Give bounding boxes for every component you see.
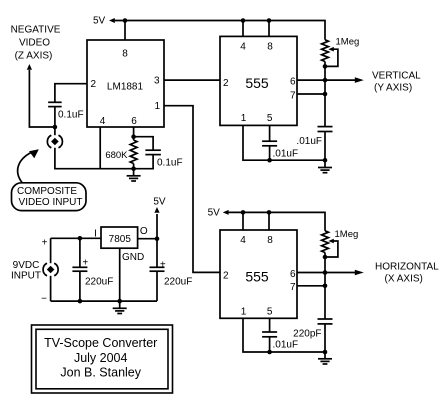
- wire: U1 pin 6 down: [133, 127, 135, 140]
- svg-text:5V: 5V: [93, 15, 106, 26]
- wire: 9V+ rail to U4 input: [51, 237, 101, 239]
- value 0.1uF (C2): [157, 158, 183, 169]
- wire: U3 pin 7 right: [297, 285, 325, 287]
- junction above U3 pin 8: [267, 210, 272, 215]
- svg-text:5V: 5V: [208, 207, 221, 218]
- svg-text:7805: 7805: [109, 234, 132, 245]
- svg-text:680K: 680K: [105, 150, 128, 161]
- svg-text:1Meg: 1Meg: [335, 229, 359, 240]
- ground (U3 section): [318, 352, 332, 364]
- svg-text:VERTICAL: VERTICAL: [372, 71, 421, 82]
- node VR1 wiper junction: [323, 64, 328, 69]
- pin 1 label U1: [154, 101, 160, 112]
- wire: bottom - rail: [51, 300, 157, 302]
- pin 2 label U3: [223, 270, 229, 281]
- node C7 bottom junction: [78, 299, 83, 304]
- wire: U3 pin 8 to rail: [268, 212, 270, 230]
- wire: J2 center to + rail: [50, 238, 52, 263]
- title text TV-Scope Converter: [44, 336, 157, 350]
- svg-text:July 2004: July 2004: [74, 351, 128, 365]
- svg-text:O: O: [140, 226, 148, 237]
- node HORIZONTAL (X AXIS) label: [375, 261, 439, 284]
- pin 7 label U3: [290, 282, 296, 293]
- svg-text:(Z AXIS): (Z AXIS): [15, 51, 53, 62]
- svg-text:LM1881: LM1881: [107, 82, 144, 93]
- junction above U3 pin 4: [241, 210, 246, 215]
- node U4 gnd junction: [117, 299, 122, 304]
- wire: U1 pin 1 to U3 pin 2: [164, 106, 220, 273]
- timer U2 555 (vertical): [220, 36, 297, 125]
- wire: U1 pin 8 to 5V rail: [124, 21, 126, 41]
- pin 5 label U2: [267, 113, 273, 124]
- svg-text:2: 2: [91, 79, 97, 90]
- svg-text:HORIZONTAL: HORIZONTAL: [375, 261, 439, 272]
- 5V rail arrow: [109, 18, 115, 23]
- value 220pF (C6): [293, 329, 321, 340]
- title block border: [32, 325, 173, 393]
- wire: U3 pin 6 right: [297, 272, 325, 274]
- pin 5 label U3: [267, 306, 273, 317]
- vertical output arrow: [325, 77, 364, 83]
- svg-text:6: 6: [290, 77, 296, 88]
- svg-text:2: 2: [223, 78, 229, 89]
- capacitor C3 .01uF (U2 pin5): [262, 141, 277, 160]
- capacitor C2 0.1uF: [134, 137, 161, 169]
- terminal - label (9V input): [41, 294, 47, 305]
- svg-text:555: 555: [245, 268, 269, 284]
- svg-text:(X AXIS): (X AXIS): [385, 273, 423, 284]
- horizontal output arrow: [325, 270, 364, 276]
- pin 4 label U1: [100, 116, 106, 127]
- pin 8 label U1: [122, 49, 128, 60]
- value 1Meg (VR1): [336, 36, 360, 47]
- svg-text:1Meg: 1Meg: [336, 36, 360, 47]
- pin 8 label U2: [267, 42, 273, 53]
- pin label O (U4 output): [140, 226, 148, 237]
- wire: U1 pin 3 to U2 pin 2: [164, 79, 220, 81]
- wire: U4 gnd down: [119, 248, 121, 301]
- junction above 555 U2 pin 4: [241, 18, 246, 23]
- pin 1 label U2: [241, 113, 247, 124]
- svg-text:7: 7: [290, 282, 296, 293]
- svg-text:0.1uF: 0.1uF: [157, 158, 183, 169]
- pin label I (U4 input): [94, 229, 97, 240]
- node 5V (U3 rail label): [208, 207, 221, 218]
- title text July 2004: [74, 351, 128, 365]
- node VR2 wiper junction: [323, 255, 328, 260]
- svg-text:4: 4: [240, 235, 246, 246]
- node C5 gnd junction: [267, 350, 272, 355]
- svg-text:VIDEO: VIDEO: [19, 38, 50, 49]
- svg-text:0.1uF: 0.1uF: [58, 110, 84, 121]
- svg-text:TV-Scope Converter: TV-Scope Converter: [44, 336, 157, 350]
- svg-text:+: +: [82, 258, 88, 269]
- node U4 output junction: [155, 236, 160, 241]
- value 680K (R1): [105, 150, 128, 161]
- svg-text:2: 2: [223, 270, 229, 281]
- wire: U2 pin 6 right: [297, 79, 325, 81]
- callout COMPOSITE VIDEO INPUT: [12, 183, 87, 211]
- svg-text:8: 8: [267, 42, 273, 53]
- svg-text:.01uF: .01uF: [273, 340, 299, 351]
- value 1Meg (VR2): [335, 229, 359, 240]
- wire: U2 pin 1 down to gnd rail: [243, 125, 325, 160]
- svg-text:.01uF: .01uF: [273, 149, 299, 160]
- 5V output arrow up: [154, 207, 159, 239]
- svg-text:COMPOSITE: COMPOSITE: [17, 186, 77, 197]
- svg-text:INPUT: INPUT: [11, 271, 41, 282]
- potentiometer VR2 1Meg (horizontal): [322, 231, 338, 257]
- node VERTICAL (Y AXIS) label: [372, 71, 421, 94]
- pin 4 label U2: [240, 42, 246, 53]
- node C7 top junction: [78, 236, 83, 241]
- node pin7 junction: [323, 92, 328, 97]
- svg-text:1: 1: [241, 306, 247, 317]
- node pin7 junction 2: [323, 284, 328, 289]
- svg-text:5V: 5V: [153, 197, 166, 208]
- svg-text:5: 5: [267, 113, 273, 124]
- svg-text:8: 8: [122, 49, 128, 60]
- junction above LM1881 pin 8: [123, 18, 128, 23]
- value 220uF (C8): [164, 277, 192, 288]
- pin 6 label U1: [131, 116, 137, 127]
- svg-text:220uF: 220uF: [85, 277, 113, 288]
- pin 2 label U1: [91, 79, 97, 90]
- pin label GND (U4): [122, 252, 144, 263]
- svg-text:Jon B. Stanley: Jon B. Stanley: [60, 365, 141, 379]
- pin 6 label U2: [290, 77, 296, 88]
- capacitor C7 220uF (input): [72, 238, 87, 301]
- svg-text:VIDEO INPUT: VIDEO INPUT: [19, 197, 83, 208]
- potentiometer VR1 1Meg (vertical): [322, 40, 338, 67]
- sync separator U1 LM1881: [87, 40, 164, 127]
- ground (U2 section): [318, 160, 332, 173]
- svg-text:7: 7: [290, 91, 296, 102]
- svg-text:9VDC: 9VDC: [13, 260, 40, 271]
- svg-text:6: 6: [290, 269, 296, 280]
- svg-text:(Y AXIS): (Y AXIS): [374, 83, 412, 94]
- value 0.1uF (C1): [58, 110, 84, 121]
- pin 3 label U1: [154, 76, 160, 87]
- pin 6 label U3: [290, 269, 296, 280]
- timer U3 555 (horizontal): [220, 230, 297, 318]
- capacitor C8 220uF (output): [150, 239, 165, 301]
- connector J2 9VDC input jack: [43, 263, 58, 276]
- ground (power section): [113, 301, 127, 313]
- node pin6 junction: [131, 134, 136, 139]
- callout curved arrow: [18, 149, 39, 182]
- node pin6 output junction 2: [323, 270, 328, 275]
- svg-text:−: −: [41, 294, 47, 305]
- svg-text:1: 1: [154, 101, 160, 112]
- wire: J2 shell to - rail: [50, 276, 52, 301]
- wire: U4 output to 5V node: [138, 238, 157, 240]
- svg-text:220uF: 220uF: [164, 277, 192, 288]
- wire: top 5V rail: [113, 21, 325, 40]
- wire: U2 pin 8 to rail: [268, 21, 270, 37]
- node 5V (top rail label): [93, 15, 106, 26]
- polarity + (C8): [160, 260, 166, 271]
- svg-text:4: 4: [240, 42, 246, 53]
- value .01uF (C3): [273, 149, 299, 160]
- svg-text:4: 4: [100, 116, 106, 127]
- value 220uF (C7): [85, 277, 113, 288]
- pin 1 label U3: [241, 306, 247, 317]
- connector J1 composite video jack: [47, 135, 62, 148]
- wire: Z axis output down to video node: [29, 70, 55, 127]
- wire: U1 pin 2 left: [55, 84, 87, 102]
- wire: U3 pin 5 down: [269, 318, 271, 332]
- svg-text:220pF: 220pF: [293, 329, 321, 340]
- node NEGATIVE VIDEO (Z AXIS) label: [11, 25, 61, 62]
- svg-text:+: +: [160, 260, 166, 271]
- value .01uF (C5): [273, 340, 299, 351]
- wire: U2 pin 4 to rail: [242, 21, 244, 37]
- node 5V (regulator output label): [153, 197, 166, 208]
- node R1/C2 ground junction: [131, 166, 136, 171]
- svg-text:6: 6: [131, 116, 137, 127]
- capacitor C4 .01uF (output): [318, 127, 333, 161]
- negative video arrow: [27, 64, 32, 70]
- node 9VDC INPUT label: [11, 260, 41, 282]
- junction above 555 U2 pin 8: [267, 18, 272, 23]
- pin 8 label U3: [267, 235, 273, 246]
- node gnd rail right junction: [323, 158, 328, 163]
- regulator U4 7805: [101, 227, 138, 248]
- svg-text:555: 555: [245, 75, 269, 91]
- svg-text:GND: GND: [122, 252, 144, 263]
- wire: right column down: [324, 66, 326, 126]
- capacitor C6 220pF (output): [318, 319, 333, 352]
- node pin6 output junction: [323, 78, 328, 83]
- title text Jon B. Stanley: [60, 365, 141, 379]
- node video input junction: [53, 125, 58, 130]
- wire: J1 shell to ground rail: [55, 148, 134, 169]
- svg-text:3: 3: [154, 76, 160, 87]
- capacitor C5 .01uF (U3 pin5): [262, 332, 277, 352]
- svg-text:.01uF: .01uF: [296, 136, 322, 147]
- 5V rail 2 arrow: [223, 210, 229, 215]
- polarity + (C7): [82, 258, 88, 269]
- wire: U3 5V rail: [228, 212, 326, 230]
- pin 2 label U2: [223, 78, 229, 89]
- wire: U3 pin 1 down to gnd rail: [243, 318, 325, 352]
- svg-text:8: 8: [267, 235, 273, 246]
- svg-text:1: 1: [241, 113, 247, 124]
- svg-text:+: +: [42, 238, 48, 249]
- svg-text:5: 5: [267, 306, 273, 317]
- ground (U1 section): [127, 169, 141, 181]
- capacitor C1 0.1uF (coupling): [48, 102, 62, 106]
- wire: U2 pin 7 right: [297, 93, 325, 95]
- value .01uF (C4): [296, 136, 322, 147]
- wire: right column 2 down: [324, 257, 326, 319]
- pin 7 label U2: [290, 91, 296, 102]
- svg-text:NEGATIVE: NEGATIVE: [11, 25, 61, 36]
- terminal + label (9V input): [42, 238, 48, 249]
- wire: U2 pin 5 down: [269, 125, 271, 141]
- node gnd rail right junction 2: [323, 350, 328, 355]
- wire: U3 pin 4 to rail: [242, 212, 244, 230]
- wire: U1 pin 4 down: [99, 127, 101, 169]
- resistor R1 680K: [130, 140, 137, 169]
- wire: C1 to video input node: [54, 107, 56, 136]
- pin 4 label U3: [240, 235, 246, 246]
- node C3 gnd junction: [267, 158, 272, 163]
